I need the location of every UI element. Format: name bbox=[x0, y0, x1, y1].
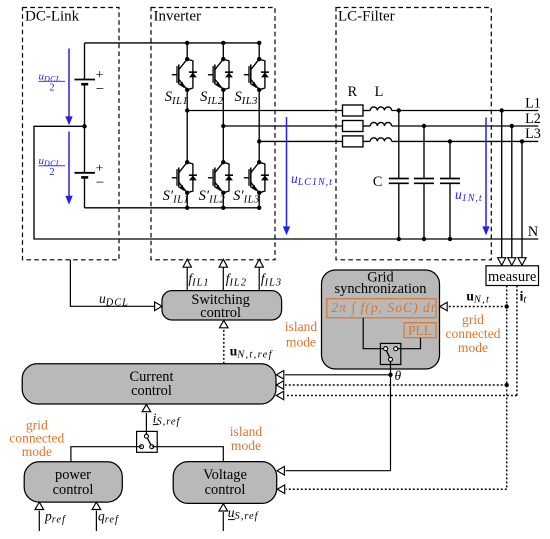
svg-text:control: control bbox=[131, 383, 172, 399]
svg-text:−: − bbox=[96, 175, 104, 191]
svg-text:control: control bbox=[53, 482, 94, 498]
svg-text:2π ∫ f(p, SoC) dt: 2π ∫ f(p, SoC) dt bbox=[331, 300, 435, 316]
svg-text:control: control bbox=[200, 305, 241, 321]
svg-text:L1: L1 bbox=[525, 96, 541, 112]
svg-text:power: power bbox=[55, 467, 91, 483]
svg-text:connected: connected bbox=[445, 326, 500, 341]
svg-text:synchronization: synchronization bbox=[335, 281, 427, 297]
svg-text:L2: L2 bbox=[525, 111, 541, 127]
svg-text:mode: mode bbox=[22, 444, 52, 459]
svg-text:LC-Filter: LC-Filter bbox=[338, 9, 395, 25]
svg-text:2: 2 bbox=[49, 167, 54, 178]
svg-text:2: 2 bbox=[49, 83, 54, 94]
svg-text:θ: θ bbox=[395, 368, 402, 383]
svg-text:mode: mode bbox=[286, 334, 316, 349]
svg-text:mode: mode bbox=[231, 438, 261, 453]
svg-text:measure: measure bbox=[488, 269, 536, 285]
svg-text:DC-Link: DC-Link bbox=[25, 9, 80, 25]
svg-text:R: R bbox=[348, 84, 358, 100]
svg-text:control: control bbox=[205, 482, 246, 498]
svg-text:C: C bbox=[373, 174, 382, 190]
svg-text:N: N bbox=[528, 224, 538, 240]
svg-text:mode: mode bbox=[458, 340, 488, 355]
svg-text:Inverter: Inverter bbox=[154, 9, 201, 25]
svg-text:Voltage: Voltage bbox=[203, 467, 247, 483]
svg-text:island: island bbox=[230, 424, 263, 439]
svg-text:grid: grid bbox=[462, 312, 484, 327]
svg-text:PLL: PLL bbox=[408, 323, 432, 338]
svg-text:−: − bbox=[96, 82, 104, 98]
svg-text:island: island bbox=[285, 319, 318, 334]
svg-text:L: L bbox=[375, 84, 384, 100]
svg-text:L3: L3 bbox=[525, 126, 541, 142]
